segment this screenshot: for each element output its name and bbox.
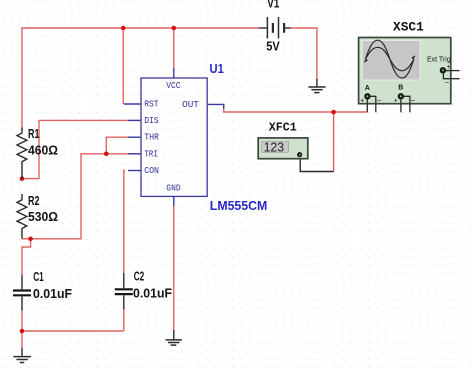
wire C1 ground stem xyxy=(21,331,23,349)
svg-text:GND: GND xyxy=(166,183,181,194)
pin RST stub xyxy=(124,103,141,105)
svg-text:0.01uF: 0.01uF xyxy=(33,287,72,301)
svg-text:LM555CM: LM555CM xyxy=(210,198,267,213)
wire R2 bottom jog down to C1 xyxy=(22,239,31,275)
terminal B xyxy=(398,94,403,99)
svg-text:Ext Trig: Ext Trig xyxy=(427,57,451,64)
node junction OUT-XFC1 xyxy=(331,110,336,115)
terminal A xyxy=(365,94,370,99)
capacitor C2 xyxy=(115,273,133,309)
XFC1 terminal xyxy=(298,153,302,157)
capacitor C1 xyxy=(13,275,31,311)
svg-text:U1: U1 xyxy=(210,61,224,76)
node junction top rail VCC xyxy=(172,26,177,31)
svg-text:123: 123 xyxy=(264,140,285,155)
wire DIS to R1-R2 junction xyxy=(22,120,128,178)
terminal B plus stub xyxy=(400,99,402,112)
ground battery xyxy=(308,79,325,93)
XFC1 display xyxy=(262,142,289,153)
node junction THR-TRI xyxy=(104,152,109,157)
XSC1 waveform trace 1 xyxy=(366,40,414,78)
svg-text:RST: RST xyxy=(144,99,159,110)
svg-text:A: A xyxy=(365,85,370,92)
wire RST drop from top rail xyxy=(122,28,124,104)
svg-text:–: – xyxy=(377,97,381,104)
Ext Trig minus hook xyxy=(443,73,459,78)
wire XFC1 terminal link (black) xyxy=(300,157,333,172)
svg-text:–: – xyxy=(411,97,415,104)
svg-text:C1: C1 xyxy=(33,270,44,284)
resistor R2 xyxy=(17,194,27,239)
wire VCC drop from top rail xyxy=(173,28,175,70)
svg-text:TRI: TRI xyxy=(144,148,158,159)
pin GND stub xyxy=(173,196,175,206)
XSC1 waveform arrows xyxy=(364,55,416,62)
XSC1 waveform trace 2 xyxy=(366,47,414,70)
wire OUT branch down to XFC1 level xyxy=(333,112,335,172)
svg-text:XSC1: XSC1 xyxy=(393,19,424,34)
wire top rail from R1 to battery V1 xyxy=(22,28,259,129)
resistor R1 xyxy=(17,128,27,179)
svg-text:0.01uF: 0.01uF xyxy=(133,287,172,301)
op-amp U1 LM555CM chip body xyxy=(141,78,207,196)
pin OUT stub xyxy=(207,103,224,105)
pin TRI stub xyxy=(128,153,141,155)
wire TRI net to R2 bottom xyxy=(22,154,135,239)
battery V1 xyxy=(259,17,291,39)
svg-text:OUT: OUT xyxy=(182,99,199,110)
Ext Trig plus stub xyxy=(446,70,460,72)
node junction R2-TRI xyxy=(28,237,33,242)
svg-text:VCC: VCC xyxy=(166,80,181,91)
pin CON stub xyxy=(128,170,141,172)
wire GND pin down to ground xyxy=(173,205,175,332)
svg-text:XFC1: XFC1 xyxy=(269,121,297,135)
svg-text:5V: 5V xyxy=(266,40,280,54)
wire C2 bottom to bottom rail xyxy=(123,309,125,331)
terminal A wire hook xyxy=(370,96,376,112)
terminal Ext Trig xyxy=(440,68,445,73)
terminal B wire hook xyxy=(404,96,410,112)
svg-text:530Ω: 530Ω xyxy=(28,210,58,224)
svg-text:+: + xyxy=(394,98,398,105)
pin VCC stub xyxy=(173,68,175,78)
node junction bottom rail xyxy=(20,329,25,334)
pin DIS stub xyxy=(128,119,141,121)
wire THR down to TRI net xyxy=(106,137,128,154)
frequency counter XFC1 body xyxy=(258,138,308,159)
svg-text:+: + xyxy=(360,98,364,105)
node junction top rail RST xyxy=(121,26,126,31)
svg-text:–: – xyxy=(445,80,449,87)
XSC1 screen xyxy=(362,40,420,80)
svg-text:DIS: DIS xyxy=(144,115,159,126)
svg-text:V1: V1 xyxy=(267,0,279,10)
svg-text:C2: C2 xyxy=(134,270,145,284)
svg-text:B: B xyxy=(398,85,403,92)
svg-text:THR: THR xyxy=(144,132,159,143)
svg-text:460Ω: 460Ω xyxy=(28,144,58,158)
svg-text:R2: R2 xyxy=(28,194,40,208)
oscilloscope XSC1 body xyxy=(359,38,451,104)
wire battery right to ground xyxy=(291,28,317,80)
svg-text:R1: R1 xyxy=(28,127,40,141)
svg-text:CON: CON xyxy=(144,165,159,176)
ground chip GND xyxy=(166,330,182,345)
pin THR stub xyxy=(128,136,141,138)
wire CON down to C2 xyxy=(124,171,125,274)
wire OUT net to scope A xyxy=(224,104,368,112)
node junction R1-R2-DIS xyxy=(20,176,25,181)
wire bottom rail C1 to C2 xyxy=(22,311,124,331)
ground C1 xyxy=(13,348,31,363)
terminal A plus stub xyxy=(366,99,368,112)
